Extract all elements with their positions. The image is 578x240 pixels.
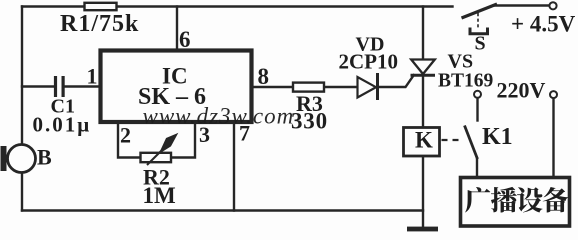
wire top rail to thyristor anode [422, 7, 424, 60]
wire 220V right terminal to broadcast box [552, 99, 554, 177]
wire thyristor cathode to relay K [422, 75, 424, 128]
wire diode to thyristor gate [379, 75, 414, 87]
wire relay K to ground [422, 158, 424, 229]
svg-text:2: 2 [120, 123, 131, 148]
svg-text:0.01μ: 0.01μ [33, 113, 92, 137]
wire IC pin 7 to bottom rail [233, 122, 235, 211]
svg-text:www.dz3w.com: www.dz3w.com [143, 104, 295, 129]
broadcast equipment box [461, 178, 570, 227]
wire bottom rail [22, 209, 423, 211]
svg-text:R1/75k: R1/75k [60, 11, 139, 37]
wire IC pin 6 to top rail [176, 7, 178, 51]
relay coil K [404, 128, 440, 157]
wire IC pin 2 down [118, 122, 140, 158]
svg-text:B: B [37, 145, 52, 170]
switch S (push button) [462, 4, 498, 55]
wire R3 to diode VD [324, 86, 357, 88]
wire microphone bottom to bottom rail [21, 173, 23, 211]
resistor R3 [291, 83, 328, 134]
microphone B [1, 145, 53, 173]
wire IC pin 3 down [171, 122, 195, 158]
220V left terminal [474, 91, 481, 98]
svg-text:220V: 220V [497, 78, 546, 103]
svg-text:2CP10: 2CP10 [339, 50, 399, 74]
+4.5V terminal [511, 2, 576, 36]
op-amp IC U1 SK-6 [101, 51, 252, 123]
wire left vertical from top rail to microphone [21, 7, 23, 146]
svg-text:1M: 1M [143, 183, 177, 208]
svg-text:330: 330 [291, 108, 328, 133]
wire C1 to IC pin 1 [65, 85, 101, 87]
capacitor C1 [33, 76, 92, 137]
ground [407, 227, 438, 232]
wire top rail left segment [22, 5, 84, 7]
relay contact K1 [465, 124, 513, 159]
diode VD 2CP10 [339, 34, 399, 101]
wire IC pin 8 to R3 [252, 86, 293, 88]
svg-text:BT169: BT169 [438, 70, 494, 91]
220V right terminal [550, 91, 557, 98]
svg-text:6: 6 [179, 27, 191, 52]
svg-text:VS: VS [448, 51, 474, 73]
potentiometer R2 [141, 134, 178, 208]
svg-text:1: 1 [87, 64, 98, 89]
svg-text:K: K [415, 128, 433, 153]
wire 220V left terminal to contact K1 [476, 99, 478, 121]
wire C1 branch left [22, 85, 54, 87]
wire switch S to +4.5V terminal [494, 4, 550, 6]
wire top rail middle segment [117, 5, 453, 7]
svg-text:K1: K1 [482, 124, 513, 150]
wire contact K1 to broadcast box [476, 159, 478, 177]
dashed link K to K1 [442, 139, 464, 141]
svg-text:+ 4.5V: + 4.5V [511, 12, 576, 37]
resistor R1 [60, 3, 139, 37]
thyristor VS BT169 [411, 51, 494, 92]
svg-text:S: S [475, 33, 486, 55]
svg-text:8: 8 [258, 64, 270, 89]
